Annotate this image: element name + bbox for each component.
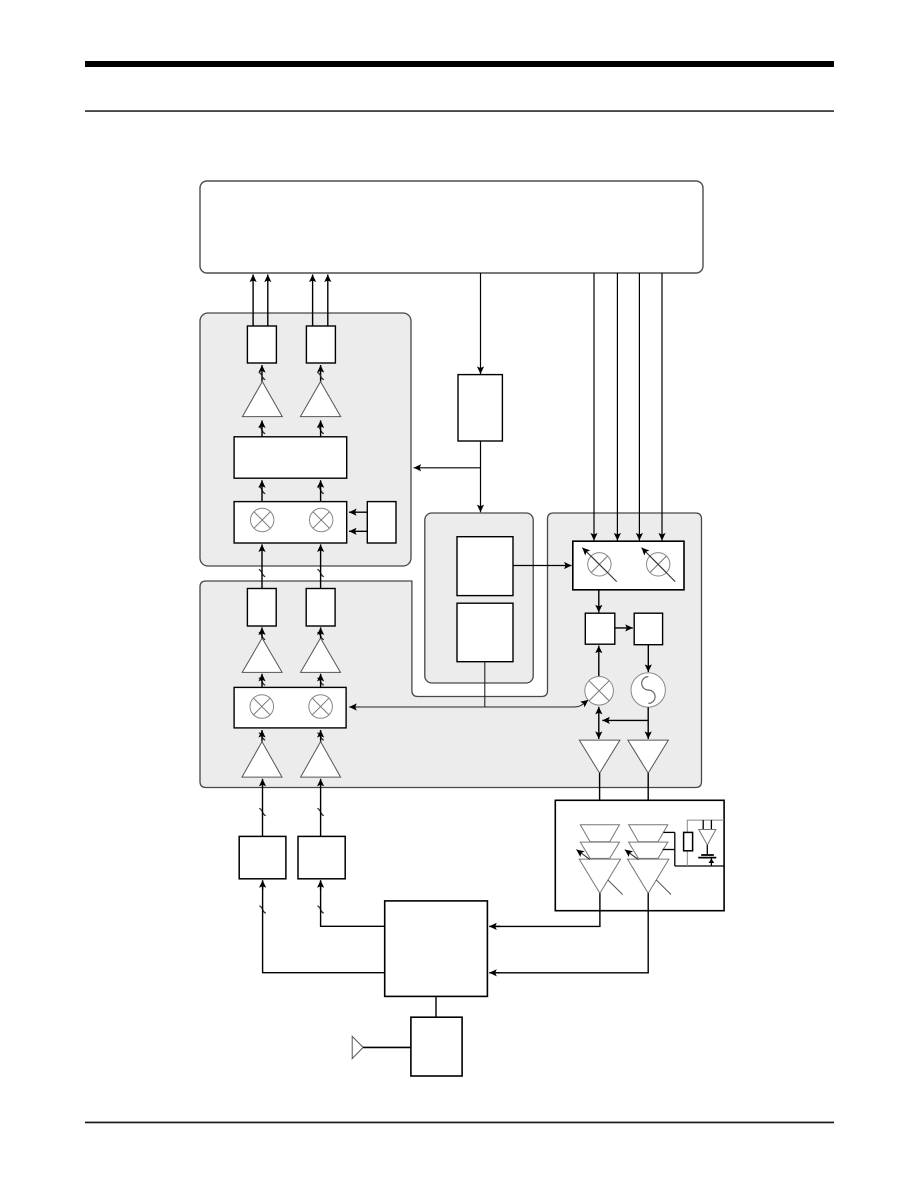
wire VCO out 2 to antenna switch — [490, 893, 648, 973]
variable mixer V2 — [642, 548, 676, 582]
wire IF block to amp1 — [261, 420, 263, 436]
wire ADC to synth container — [480, 441, 482, 512]
mixer symbol M1 — [251, 508, 274, 531]
wire U1 control line 1 — [593, 273, 595, 541]
block TX gain/modulator (wide, right) — [573, 541, 684, 590]
wire mixer block to IF block 1 — [261, 480, 263, 501]
wire VCO out 1 to antenna switch — [490, 893, 600, 926]
wire register A to TX gain block — [513, 565, 572, 567]
block RX filter Q — [306, 326, 335, 363]
capacitor C1 — [701, 854, 714, 856]
mixer symbol M3 — [250, 695, 274, 719]
block reference buffer — [634, 613, 662, 645]
wire amp3 to TX filter I — [261, 627, 263, 638]
VCO supply rail — [687, 819, 724, 821]
buffer amp B2 (down) — [628, 740, 669, 773]
wire U1 to ADC block — [480, 273, 482, 374]
block VCO assembly — [555, 800, 724, 910]
wire amp4 to TX filter Q — [320, 627, 322, 638]
block synth register A — [457, 537, 513, 596]
wire switch to PA 2 — [321, 881, 385, 926]
container TX/PLL section (lower gray union shape) — [200, 513, 702, 788]
container fractional-N synth (middle gray box) — [425, 513, 533, 683]
mixer symbol M4 — [309, 695, 333, 719]
wire xtal filter to buffer — [615, 627, 633, 629]
block LO phase shifter — [367, 502, 396, 543]
wire U1 control line 3 — [638, 273, 640, 541]
bus pair slash marks — [259, 372, 324, 913]
container RX front-end (top-left gray box) — [200, 313, 411, 566]
arrowhead LO into offset mixer — [583, 700, 588, 704]
VCO stage 1b trapezoid — [580, 842, 619, 858]
block RX IF filter (wide) — [234, 437, 347, 478]
VCO stage 2c triangle — [628, 859, 669, 893]
block synth register B — [457, 603, 513, 662]
wire buffer amp to TX mixer 1 — [261, 730, 263, 742]
wire osc to offset mixer leg — [602, 719, 648, 721]
block ADC — [458, 375, 502, 441]
wire offset mixer to TX buffer (double arrow) — [598, 707, 600, 739]
wire pair rect2 to U1 — [312, 275, 314, 327]
wire branch to RX container — [414, 467, 481, 469]
wire U1 control line 4 — [661, 273, 663, 541]
amplifier A6 — [301, 742, 341, 778]
wire switch to PA 1 — [263, 881, 385, 973]
wire antenna feed — [363, 1046, 411, 1048]
wire offset mixer to xtal filter — [598, 646, 600, 676]
wire TX mixer to amp3 — [261, 674, 263, 688]
wire phase shifter to mixer (top) — [349, 511, 367, 513]
wire mixer block to IF block 2 — [320, 480, 322, 501]
VCO stage 1c triangle — [579, 859, 620, 893]
wire TX filter I up to RX mixer — [261, 544, 263, 588]
arrowhead LO into TX mixer — [349, 706, 360, 708]
wire phase shifter to mixer (bottom) — [349, 530, 367, 532]
block PA module 2 — [298, 836, 345, 878]
wire amp2 to filter Q — [320, 365, 322, 382]
wire TX path square 2 up — [320, 779, 322, 837]
block U1 main baseband controller (big rounded rect) — [200, 181, 703, 273]
block TX filter I — [247, 589, 276, 627]
wire B1 to VCO box — [599, 773, 601, 825]
block RX quadrature mixer — [234, 502, 347, 543]
wire pair rect1 to U1 — [252, 275, 254, 327]
top thick rule — [85, 61, 834, 67]
block TX quadrature mixer — [234, 687, 346, 728]
wire reference osc down — [647, 707, 649, 720]
variable mixer V1 — [582, 548, 616, 582]
block antenna switch — [385, 901, 488, 997]
VCO stage 2a trapezoid — [629, 825, 668, 842]
varactor tune arrowhead — [709, 859, 715, 863]
block PA module 1 — [239, 836, 286, 878]
wire amp1 to filter I — [261, 365, 263, 382]
wire IF block to amp2 — [320, 420, 322, 436]
antenna ANT1 — [352, 1036, 363, 1058]
resistor R1 leads — [686, 820, 688, 832]
buffer amp B1 (down) — [579, 740, 620, 773]
varactor D1 leads — [702, 820, 704, 829]
amplifier A1 — [242, 382, 282, 417]
amplifier A5 — [242, 742, 282, 778]
oscillator symbol G1 — [631, 673, 665, 707]
bottom rule — [85, 1122, 834, 1124]
wire B2 to VCO box — [647, 773, 649, 825]
block RX filter I — [247, 326, 276, 363]
wire LO distribution net — [349, 662, 583, 707]
wire TX filter Q up to RX mixer — [320, 544, 322, 588]
wire TX path square 1 up — [262, 779, 264, 837]
wire buffer amp to TX mixer 2 — [320, 730, 322, 742]
block TX filter Q — [306, 589, 335, 627]
block harmonic filter — [411, 1017, 462, 1076]
wire switch to harmonic filter — [435, 996, 437, 1017]
wire TX gain to xtal filter — [598, 590, 600, 613]
wire U1 control line 2 — [616, 273, 618, 541]
mixer symbol M5 (offset mixer) — [585, 677, 614, 706]
VCO tune arrow 1 — [576, 850, 590, 860]
resistor R1 — [684, 832, 693, 850]
amplifier A3 — [242, 638, 282, 672]
wire TX mixer to amp4 — [320, 674, 322, 688]
mixer symbol M2 — [310, 508, 333, 531]
wire buffer to reference osc — [647, 645, 649, 672]
wire osc to LO buffer 2 — [647, 720, 649, 739]
amplifier A4 — [301, 638, 341, 672]
VCO stage 2b trapezoid — [629, 842, 668, 858]
amplifier A2 — [300, 382, 340, 417]
top thin rule — [85, 110, 834, 112]
VCO tune arrow 2 — [625, 850, 639, 860]
varactor D1 — [699, 830, 716, 846]
block crystal filter — [585, 613, 615, 644]
VCO stage 1a trapezoid — [580, 825, 619, 842]
VCO bias taps — [663, 832, 725, 866]
